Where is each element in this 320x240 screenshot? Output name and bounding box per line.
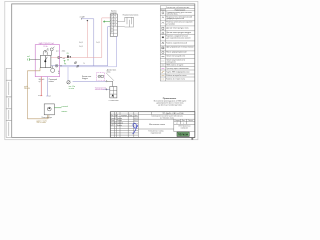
riser: pink L2 jog to box top row [102, 18, 110, 58]
svg-text:Щит управления теплым полом: Щит управления теплым полом [166, 47, 194, 49]
svg-text:Стадия: Стадия [175, 120, 180, 122]
breaker QF1 [45, 56, 47, 68]
title block header tiny texts [111, 114, 138, 127]
svg-text:для нагревательного кабеля: для нагревательного кабеля [166, 38, 190, 40]
svg-text:Терморегулятор: Терморегулятор [95, 87, 106, 89]
svg-text:Монтажная схема: Монтажная схема [149, 124, 166, 126]
svg-text:Насос циркуляционный: Насос циркуляционный [166, 51, 186, 54]
svg-text:Разраб.: Разраб. [111, 118, 117, 120]
legend row texts [166, 12, 194, 81]
svg-text:освещения: освещения [166, 61, 176, 63]
svg-text:дифференциальный: дифференциальный [166, 17, 184, 20]
svg-text:Козлов: Козлов [117, 125, 122, 127]
tan labels [24, 86, 47, 124]
wire: box to heating cable [117, 22, 125, 28]
svg-text:PE: PE [67, 53, 69, 55]
svg-text:Датчик температуры воздуха: Датчик температуры воздуха [166, 32, 192, 34]
svg-text:от пола: от пола [69, 88, 74, 90]
svg-text:05.12: 05.12 [134, 118, 138, 120]
stage/sheet header [174, 119, 195, 124]
blue neutral bus [49, 65, 107, 67]
company name lines [178, 126, 190, 130]
svg-text:кабель в трубе: кабель в трубе [37, 120, 48, 122]
svg-text:Пров.: Пров. [111, 120, 116, 122]
legend table grid [160, 6, 195, 81]
project description cell [138, 118, 195, 120]
svg-text:воздуха: воздуха [82, 78, 88, 80]
svg-text:Изм: Изм [111, 115, 114, 117]
bus annotation marks [56, 51, 85, 65]
leader line [106, 73, 114, 81]
green PE entry to box [103, 21, 110, 23]
format mark [191, 138, 193, 139]
svg-text:PE: PE [64, 64, 66, 66]
svg-text:ПЕЛКОМ: ПЕЛКОМ [178, 134, 188, 136]
doc designation cell [138, 114, 195, 116]
svg-text:Граница щита автоматики: Граница щита автоматики [166, 68, 188, 70]
svg-text:каб: каб [63, 58, 65, 60]
legend header text [161, 7, 190, 11]
air sensor label [82, 76, 92, 80]
svg-text:Кабель в стяжке пола: Кабель в стяжке пола [166, 79, 186, 81]
title block outer [110, 112, 195, 138]
title block left grid horizontals [110, 114, 138, 135]
svg-text:Труба ПВХ гофрированная: Труба ПВХ гофрированная [166, 71, 189, 74]
svg-text:установки: установки [166, 23, 175, 25]
svg-text:05.12: 05.12 [134, 120, 138, 122]
heating cable meander EK1 [125, 17, 134, 27]
indicator circle below [52, 66, 54, 68]
svg-text:Р: Р [177, 123, 178, 125]
room thermostat symbol A2 [67, 81, 70, 84]
svg-text:Подп.: Подп. [129, 115, 134, 117]
pump box M1 [44, 104, 54, 115]
thermostat internals [98, 75, 103, 77]
svg-text:гр.1: гр.1 [56, 51, 59, 53]
svg-text:ГИП: ГИП [111, 125, 114, 127]
svg-text:гр.1: гр.1 [48, 95, 51, 97]
svg-text:Листов: Листов [188, 120, 193, 122]
svg-text:ПВХ кабель в трубе: ПВХ кабель в трубе [166, 65, 183, 67]
drawing name cell [173, 119, 175, 131]
note body text [154, 101, 187, 107]
bell/RCD circle symbol [50, 47, 54, 56]
blue bus extension to riser [60, 66, 117, 68]
texts below panel [39, 78, 57, 83]
svg-text:Иванов: Иванов [117, 118, 122, 120]
svg-text:Кабель нагревательный: Кабель нагревательный [166, 42, 187, 45]
pump green labels [62, 105, 68, 113]
svg-text:Линия питающей сети: Линия питающей сети [166, 55, 185, 58]
svg-text:труба: труба [24, 86, 28, 88]
svg-text:ООО Проектная: ООО Проектная [178, 126, 190, 128]
sensor wires blue [73, 80, 106, 82]
thermostat drop [67, 67, 69, 81]
svg-text:Датчик темп.: Датчик темп. [107, 70, 117, 72]
svg-text:Условные обозначения: Условные обозначения [166, 7, 190, 9]
floor sensor box BK1 [110, 87, 117, 98]
svg-text:в стяжке пола: в стяжке пола [109, 100, 119, 102]
svg-text:Коробка: Коробка [111, 11, 117, 13]
svg-text:2х1,5: 2х1,5 [62, 51, 66, 53]
svg-text:Датчик температуры пола: Датчик температуры пола [166, 27, 189, 29]
thermostat magenta caption [95, 87, 106, 91]
svg-text:кв. Типового этажа: кв. Типового этажа [160, 117, 174, 119]
left margin vertical text marks [7, 82, 10, 136]
sheet edge [5, 1, 198, 139]
breaker enclosure QF1 [40, 56, 51, 68]
terminal cluster on phase bus [67, 55, 71, 57]
svg-text:кабель: кабель [49, 81, 54, 83]
svg-text:N: N [84, 63, 85, 65]
svg-text:подключения: подключения [151, 133, 161, 135]
tan conduit path [28, 68, 48, 119]
wire labels near risers [79, 42, 83, 48]
svg-text:Датчик темп.: Датчик темп. [82, 76, 92, 78]
svg-text:2x1,5: 2x1,5 [79, 46, 83, 48]
svg-text:Кабель в штробе стены: Кабель в штробе стены [166, 75, 187, 77]
svg-text:Лист: Лист [182, 120, 186, 122]
left margin stamp cells [6, 68, 12, 137]
green input connector XS1 [27, 56, 31, 61]
drawing frame [12, 4, 195, 138]
svg-text:теплого пола: теплого пола [166, 14, 178, 16]
pink phase bus [49, 57, 102, 59]
signature (blue flourish) [133, 123, 138, 134]
pump symbol [47, 107, 51, 111]
svg-text:теплого пола: теплого пола [95, 89, 104, 91]
floor sensor label [107, 70, 117, 74]
riser: blue N2 jog to box [108, 27, 111, 66]
svg-text:Полотенцесуш.: Полотенцесуш. [42, 117, 53, 119]
sensor link wire [107, 81, 113, 86]
panel boundary (magenta box) [35, 45, 59, 77]
svg-text:комнате: комнате [62, 111, 68, 113]
socket symbol above breaker [43, 48, 48, 55]
svg-text:Дата: Дата [134, 115, 137, 117]
company logo [174, 131, 195, 133]
wire: socket to bus [47, 49, 49, 51]
svg-text:Петров: Петров [117, 120, 122, 122]
svg-text:3x1,5: 3x1,5 [79, 42, 83, 44]
second tan stub [48, 115, 50, 119]
svg-text:2х1,5: 2х1,5 [96, 42, 100, 44]
junction box XK1 label [110, 11, 117, 15]
feeder drop blue [46, 77, 48, 96]
svg-text:Сидоров: Сидоров [117, 123, 123, 125]
title block left grid verticals [114, 112, 138, 138]
svg-text:компания: компания [181, 128, 188, 130]
junction box XK1 (terminal block) [110, 14, 117, 36]
svg-text:пола: пола [107, 71, 111, 73]
riser: blue to box bottom [116, 36, 118, 67]
regulator contact symbols on bus [74, 61, 79, 67]
riser: blue N1 jog left [81, 19, 93, 66]
legend symbol glyphs [162, 12, 165, 79]
wire: pump green [54, 107, 61, 109]
svg-text:Обозн.: Обозн. [161, 9, 166, 11]
svg-text:1Р-4в: 1Р-4в [43, 46, 47, 48]
terminal marks on buses [56, 56, 62, 67]
wire: connector to panel [31, 59, 41, 61]
svg-text:ПВХ в стяжке: ПВХ в стяжке [37, 122, 47, 124]
svg-text:выс.1,5м: выс.1,5м [69, 86, 75, 88]
tiny marks right of panel edge [57, 71, 60, 74]
riser: pink L1 with top dot [86, 21, 88, 58]
svg-text:до места установки датчика: до места установки датчика [158, 104, 181, 106]
svg-text:ТП-ДмРт-ОВ1-а-ПЧб: ТП-ДмРт-ОВ1-а-ПЧб [162, 113, 184, 115]
green label under thermostat [69, 86, 75, 90]
svg-text:вв.1: вв.1 [27, 56, 30, 58]
green PE mark mid [64, 60, 67, 65]
feeder drop red [40, 77, 42, 96]
svg-text:ПВХ d16: ПВХ d16 [24, 88, 30, 90]
thermostat unit dashed box A1 [97, 73, 105, 81]
